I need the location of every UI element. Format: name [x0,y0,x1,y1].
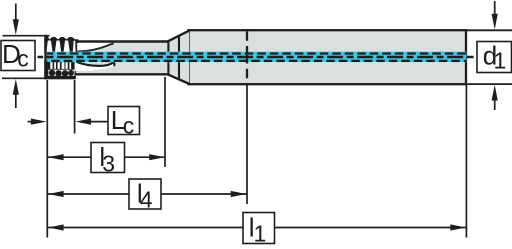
wire cone edge line A (neck end) [167,42,169,75]
thread bottom scallop 2 [55,70,61,76]
thread head left edge [44,35,46,79]
d1 top extension line [466,29,512,31]
label box l4 [129,178,161,212]
thread bottom crest band [44,76,75,79]
thread tooth white triangle 2 [55,40,62,53]
l4 dimension line [48,193,129,195]
thread bottom white crescent band [48,70,74,76]
flute lower white face [75,62,115,71]
svg-text:c: c [17,45,29,71]
thread groove white bar 3 [58,62,60,69]
wire extension line Lc right [74,80,76,134]
wire extension line left (l1/l3/l4/Lc origin) [46,80,48,238]
wire neck top line [72,40,170,42]
d1 arrow bottom [492,85,498,110]
wire l4 dashed mark through shank [246,31,248,83]
thread tooth white triangle 4 [73,41,76,53]
l1 arrow right [450,224,466,230]
l3 arrow right [149,154,165,160]
label box Lc [108,105,140,139]
wire cone top slant [168,30,190,41]
flute upper lower edge curve [77,44,113,52]
l4 arrow right [231,191,247,197]
thread head dark body top band [44,39,78,53]
thread crest bump top 3 [66,37,75,40]
flute lower bottom edge curve [77,62,115,66]
l1 arrow left [48,224,64,230]
l3 dimension line [48,156,91,158]
flute upper white face [77,43,115,51]
Lc dimension outside arrow right with leader [75,119,108,125]
label box l3 [91,142,125,176]
svg-text:c: c [123,113,135,139]
svg-text:3: 3 [102,150,115,176]
coolant channel hidden line top [47,52,466,54]
Dc arrow top [13,4,19,36]
centerline axis black dashes [38,56,475,59]
thread bottom scallop 3 [62,70,68,76]
l1 dimension line [48,227,243,229]
svg-text:1: 1 [254,221,267,247]
thread groove white bar 6 [69,62,71,69]
d1 bottom extension line [466,83,512,85]
thread bottom scallop 1 [49,70,55,76]
neck cylinder body [74,43,169,74]
Lc dimension outside arrow left [28,119,47,125]
thread tooth white triangle 1 [46,40,53,53]
wire extension line l4 right below shank [246,84,248,204]
wire extension line l3 right [164,77,166,167]
thread head dark body bottom band [44,61,76,79]
Dc top extension line [3,35,50,37]
l3 arrow left [48,154,64,160]
Dc bottom extension line [2,77,48,79]
l4 arrow left [48,191,64,197]
svg-text:1: 1 [494,48,507,74]
coolant channel hidden line bottom [47,60,466,62]
svg-text:4: 4 [140,187,153,213]
thread groove white bar 1 [50,62,52,69]
d1 arrow top [492,1,498,30]
thread groove white bar 5 [66,62,68,69]
thread tooth white triangle 3 [63,40,70,53]
thread bottom scallop 4 [68,70,74,76]
label box l1 [243,212,275,246]
label box d1 [477,41,512,74]
thread groove white bar 2 [54,62,56,69]
shank cylinder body [189,30,467,84]
label box Dc [1,39,35,72]
thread crest bump top 1 [49,37,58,40]
thread crest bump top 0 [44,36,49,40]
centerline cyan band [47,52,467,62]
taper cone neck-to-shank [168,30,189,84]
Dc arrow bottom [13,79,19,108]
wire extension line l1 right [465,85,467,238]
wire cone bottom slant [168,74,190,84]
thread groove white bar 4 [62,62,65,69]
thread crest bump top 2 [58,37,67,40]
wire cone edge line B [178,36,180,81]
wire neck bottom line [72,73,170,75]
